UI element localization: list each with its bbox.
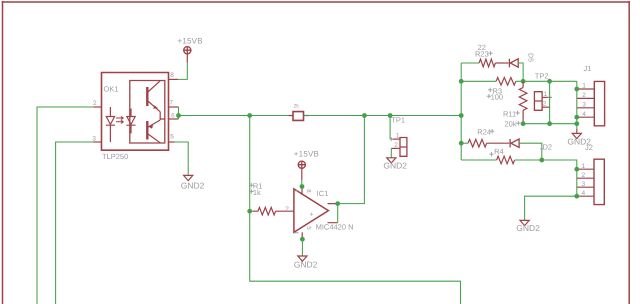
svg-text:J1: J1	[584, 64, 592, 73]
OK1 upper transistor collector	[147, 81, 160, 93]
junction OK1 pin6	[176, 113, 181, 118]
OK1 photodiode	[126, 109, 135, 134]
wire IC1 pin5 to GND2	[301, 239, 303, 256]
wire J2 rail	[576, 169, 578, 196]
optocoupler OK1 outline	[102, 73, 169, 151]
svg-text:2: 2	[582, 92, 586, 99]
IC1 pin 8 (top)	[301, 187, 303, 195]
svg-text:2: 2	[394, 142, 398, 149]
wire D2 to corner	[519, 143, 542, 160]
svg-text:8: 8	[170, 72, 174, 79]
J1 pin 3	[577, 107, 595, 109]
wire J2 pin4 to GND2	[525, 196, 577, 220]
wire TP1 pin2 to GND2	[390, 148, 392, 157]
svg-text:D2: D2	[543, 143, 553, 152]
testpoint TP2 body	[534, 92, 542, 111]
svg-text:TP1: TP1	[391, 115, 405, 124]
junction right rail/main	[459, 113, 464, 118]
testpoint TP2 pin2	[542, 106, 550, 108]
wire R11 bottom row	[523, 123, 577, 125]
J2 pin 3	[577, 186, 594, 188]
svg-text:D5: D5	[527, 53, 534, 62]
frame border top	[2, 1, 630, 3]
testpoint TP2 pin1	[542, 96, 551, 98]
wire rail corner to R4	[461, 159, 496, 161]
svg-text:1: 1	[544, 91, 548, 98]
OK1 upper transistor emitter	[147, 101, 160, 112]
testpoint TP1 pin2	[391, 147, 400, 149]
svg-text:+15VB: +15VB	[294, 150, 319, 159]
J2 pin 2	[577, 177, 594, 179]
wire +15VB to IC1 pin8	[301, 180, 303, 187]
OK1 pin 5 stub	[169, 141, 175, 143]
svg-text:R24: R24	[477, 128, 491, 137]
ground GND2 (J2)	[520, 220, 529, 225]
junction IC1 output rail	[362, 113, 367, 118]
resistor R11	[522, 81, 524, 87]
junction R1	[247, 209, 252, 214]
ground GND2 (OK1)	[184, 175, 193, 180]
wire node to TP1	[389, 116, 391, 140]
junction J1 pin1	[574, 87, 579, 92]
frame border right	[628, 1, 630, 304]
wire net to OK1 pin2 (anode)	[37, 107, 94, 304]
wire node corner to J1 rail	[576, 81, 578, 129]
series jumper box SJ1	[289, 115, 310, 117]
wire R1 to IC1 pin2	[276, 210, 294, 212]
diode D5	[509, 59, 518, 67]
OK1 lower transistor base	[146, 121, 148, 140]
svg-text:GND2: GND2	[294, 260, 318, 270]
resistor R1	[252, 207, 275, 215]
wire main node left	[179, 115, 294, 117]
junction main/left rail	[247, 113, 252, 118]
IC1 pin8 tick	[295, 190, 299, 192]
IC1 pin 5 (bottom)	[301, 232, 303, 239]
svg-text:1: 1	[396, 132, 400, 139]
J1 pin 2	[577, 97, 595, 99]
svg-text:2: 2	[543, 100, 547, 107]
junction R11 bottom	[521, 121, 526, 126]
OK1 pin 3 stub	[94, 141, 102, 143]
wire rail to R23	[461, 62, 479, 64]
svg-text:+: +	[310, 212, 314, 219]
svg-text:R4: R4	[494, 147, 504, 156]
junction R11 top	[521, 79, 526, 84]
svg-text:IC1: IC1	[317, 189, 329, 198]
svg-text:6: 6	[171, 112, 175, 119]
svg-text:1: 1	[582, 163, 586, 170]
wire left rail down	[250, 116, 461, 304]
svg-text:2: 2	[285, 206, 289, 213]
OK1 inner detector box	[130, 81, 165, 144]
J1 pin 4	[577, 116, 595, 118]
OK1 output node vertical	[160, 112, 165, 120]
supply +15VB (OK1) symbol	[183, 46, 191, 54]
svg-text:7: 7	[169, 100, 173, 107]
driver IC1 triangle	[294, 189, 329, 232]
svg-text:R11: R11	[503, 109, 516, 118]
OK1 pin 6 stub	[169, 118, 179, 120]
wire IC1 output up	[338, 116, 365, 204]
junction D2/R4	[539, 158, 544, 163]
junction IC1 pin5	[300, 237, 305, 242]
junction rail/R24 row	[459, 141, 464, 146]
wire rail to R3	[461, 80, 496, 82]
junction TP2 rail bottom	[547, 121, 552, 126]
wire right rail	[460, 63, 462, 160]
ground GND2 (IC1)	[298, 256, 307, 261]
frame border left	[2, 1, 4, 304]
junction J1 rail bottom	[574, 121, 579, 126]
svg-text:5: 5	[305, 226, 312, 230]
wire net to OK1 pin3 (cathode)	[56, 142, 94, 304]
OK1 pin 8 stub	[169, 78, 179, 80]
J2 pin 4	[577, 195, 594, 197]
svg-text:2: 2	[93, 100, 97, 107]
svg-text:1: 1	[582, 83, 586, 90]
junction rail/R3 row	[459, 79, 464, 84]
ground GND2 (TP1)	[387, 158, 396, 163]
svg-text:GND2: GND2	[516, 223, 540, 233]
wire R4 to J2	[515, 160, 577, 169]
svg-text:2: 2	[582, 172, 586, 179]
svg-text:MIC4420 N: MIC4420 N	[316, 223, 354, 232]
resistor R23	[479, 59, 495, 67]
svg-text:TLP250: TLP250	[102, 152, 128, 161]
svg-text:OK1: OK1	[104, 85, 119, 94]
wire OK1 pin7-pin6 tie	[178, 107, 180, 119]
svg-text:4: 4	[582, 111, 586, 118]
svg-text:1k: 1k	[253, 188, 261, 197]
junction J2 pin4	[574, 194, 579, 199]
OK1 internal LED	[106, 107, 115, 142]
junction TP2 rail top	[547, 79, 552, 84]
OK1 pin 2 stub	[94, 106, 102, 108]
diode D2	[510, 139, 519, 147]
wire R3 to R11 top	[516, 80, 577, 82]
svg-text:20k: 20k	[505, 120, 517, 129]
wire D5 to corner	[518, 63, 523, 81]
testpoint TP1 pin1	[391, 138, 400, 140]
IC1 pin5 tick	[295, 232, 299, 234]
svg-text:GND2: GND2	[181, 180, 205, 190]
svg-text:TP2: TP2	[535, 71, 549, 80]
svg-text:R23: R23	[475, 50, 489, 59]
wire rail to R24	[461, 142, 468, 144]
svg-text:5: 5	[170, 134, 174, 141]
OK1 lower transistor collector	[147, 134, 160, 143]
svg-text:J2: J2	[585, 143, 593, 152]
svg-text:8: 8	[305, 189, 312, 193]
IC1 output pins 7/6	[328, 204, 338, 223]
testpoint TP1 body	[400, 138, 407, 157]
J2 pin 1	[577, 168, 594, 170]
J1 pin 1	[577, 88, 595, 90]
OK1 pin 7 stub	[169, 106, 179, 108]
wire OK1 pin5 to GND2	[175, 142, 189, 175]
wire main node right	[304, 115, 462, 117]
junction TP1 rail	[388, 113, 393, 118]
wire J1 rail to GND	[576, 129, 578, 133]
wire R24 to D2	[487, 142, 510, 144]
junction J2 pin1	[574, 167, 579, 172]
junction J1 pin4	[574, 115, 579, 120]
resistor R24	[468, 139, 487, 147]
svg-text:3: 3	[582, 181, 586, 188]
svg-text:+15VB: +15VB	[178, 37, 203, 46]
wire TP2 rail	[549, 81, 551, 123]
svg-text:4: 4	[582, 190, 586, 197]
wire +15VB to OK1 pin8	[178, 63, 187, 80]
svg-text:3: 3	[582, 101, 586, 108]
resistor R4	[497, 156, 515, 164]
ground GND2 (J1)	[572, 133, 581, 138]
connector J1 body	[594, 81, 604, 125]
OK1 upper transistor base	[146, 87, 148, 106]
OK1 LED light arrows	[116, 116, 124, 123]
junction IC1 output	[335, 201, 340, 206]
svg-text:GND2: GND2	[383, 161, 407, 171]
wire IC1 output tie	[337, 204, 339, 223]
svg-text:3: 3	[92, 136, 96, 143]
svg-text:25: 25	[294, 104, 299, 110]
svg-text:100: 100	[491, 92, 504, 101]
supply +15VB (IC1) symbol	[298, 161, 306, 169]
junction IC1 pin8	[300, 184, 305, 189]
connector J2 body	[594, 159, 604, 204]
resistor R3	[496, 78, 516, 86]
OK1 lower transistor emitter	[147, 120, 160, 128]
wire R23 to D5	[495, 62, 508, 64]
